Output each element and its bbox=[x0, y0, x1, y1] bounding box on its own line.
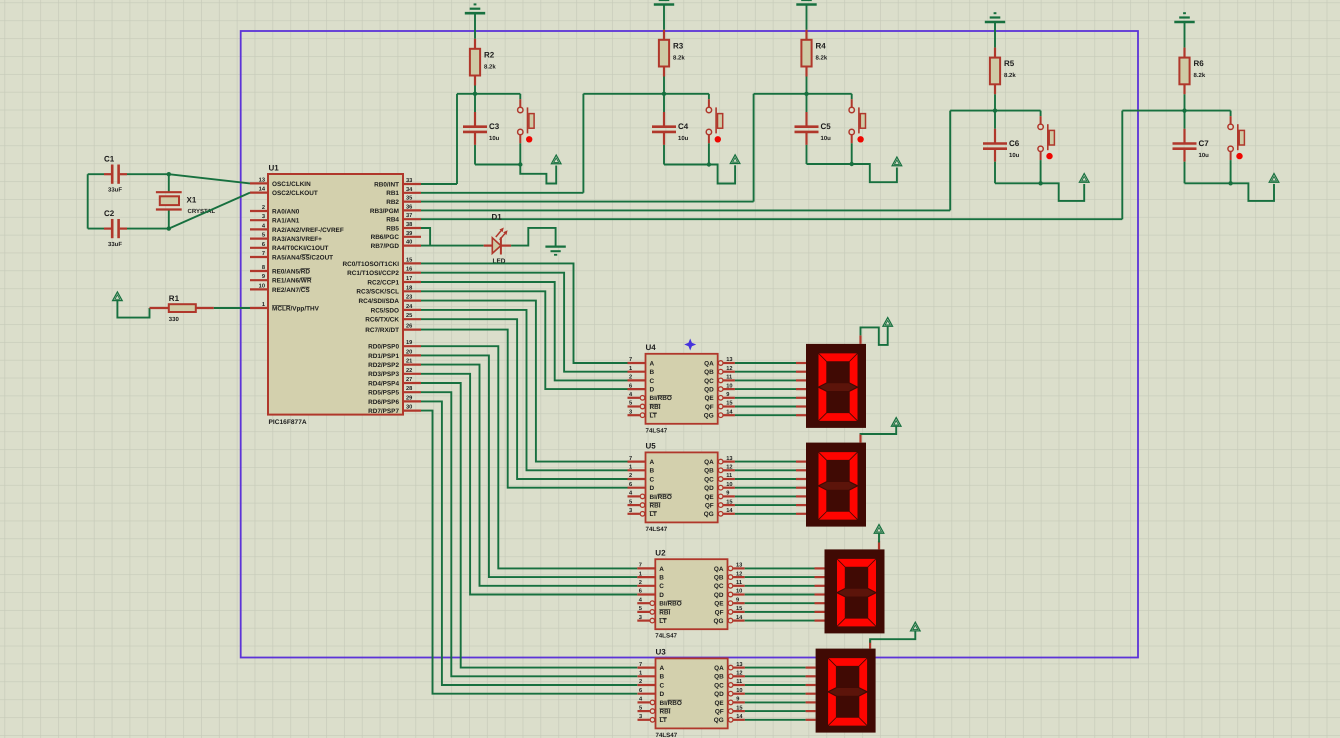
BCD decoder U2 74LS47 bbox=[637, 548, 744, 639]
svg-text:38: 38 bbox=[406, 222, 412, 228]
wire RC4 to decoder bbox=[421, 301, 628, 462]
svg-text:10u: 10u bbox=[678, 135, 689, 142]
microcontroller U1 PIC16F877A bbox=[250, 164, 421, 427]
wire to PIC port row bbox=[421, 94, 754, 202]
capacitor C6 10u bbox=[983, 111, 1020, 184]
svg-text:RC0/T1OSO/T1CKI: RC0/T1OSO/T1CKI bbox=[343, 261, 400, 268]
svg-text:7: 7 bbox=[262, 251, 265, 257]
svg-text:20: 20 bbox=[406, 349, 412, 355]
junction below button 5 bbox=[1228, 181, 1232, 185]
button 3 indicator dot bbox=[857, 136, 863, 142]
svg-text:30: 30 bbox=[406, 405, 412, 411]
wire C2 to node B bbox=[127, 228, 169, 230]
power symbol button 4 bbox=[1079, 174, 1089, 183]
svg-text:18: 18 bbox=[406, 285, 412, 291]
ground above R3 bbox=[654, 0, 674, 5]
svg-text:28: 28 bbox=[406, 386, 412, 392]
wire junction to power arrow 4 bbox=[1041, 183, 1085, 201]
wire display 4 to power bbox=[870, 631, 915, 643]
push button 1 bbox=[518, 94, 535, 165]
resistor R1 330 bbox=[150, 294, 214, 323]
wire RC5 to decoder bbox=[421, 310, 628, 470]
wire RD7 to decoder bbox=[421, 411, 637, 694]
svg-text:X1: X1 bbox=[187, 196, 197, 205]
svg-text:25: 25 bbox=[406, 313, 412, 319]
svg-text:RA0/AN0: RA0/AN0 bbox=[272, 208, 300, 215]
wire display 3 to power bbox=[878, 534, 880, 543]
wire bottom rail C3 bbox=[475, 164, 520, 166]
wire junction to power arrow 2 bbox=[709, 165, 735, 184]
power symbol button 1 bbox=[551, 155, 561, 164]
capacitor C3 10u bbox=[463, 94, 500, 165]
wire RC0 to decoder bbox=[421, 263, 628, 363]
7-segment display 1 bbox=[806, 335, 866, 428]
svg-text:8.2k: 8.2k bbox=[1194, 72, 1206, 79]
wire RD6 to decoder bbox=[421, 401, 637, 685]
7-segment display 3 bbox=[825, 541, 885, 634]
wire ground to R3 bbox=[663, 5, 665, 30]
svg-text:RA2/AN2/VREF-/CVREF: RA2/AN2/VREF-/CVREF bbox=[272, 227, 344, 234]
svg-text:RE1/AN6/WR: RE1/AN6/WR bbox=[272, 278, 312, 285]
svg-text:U4: U4 bbox=[646, 343, 657, 352]
wire RB5 to LED row bbox=[421, 228, 430, 246]
svg-text:RC3/SCK/SCL: RC3/SCK/SCL bbox=[356, 289, 399, 296]
wire ground to R6 bbox=[1184, 22, 1186, 48]
svg-text:R1: R1 bbox=[169, 294, 180, 303]
wire ground to R2 bbox=[474, 13, 476, 39]
svg-text:RD0/PSP0: RD0/PSP0 bbox=[368, 344, 399, 351]
node under R5 bbox=[993, 108, 997, 112]
node under R2 bbox=[473, 92, 477, 96]
wire node rail R4 bbox=[754, 93, 852, 95]
wire ground to R5 bbox=[994, 22, 996, 48]
junction below button 4 bbox=[1038, 181, 1042, 185]
svg-text:RA3/AN3/VREF+: RA3/AN3/VREF+ bbox=[272, 236, 322, 243]
svg-text:33uF: 33uF bbox=[108, 241, 122, 248]
wire node rail R6 bbox=[1122, 110, 1230, 112]
svg-text:RD3/PSP3: RD3/PSP3 bbox=[368, 371, 399, 378]
junction below button 3 bbox=[850, 162, 854, 166]
ground above R2 bbox=[465, 4, 485, 13]
svg-text:37: 37 bbox=[406, 213, 412, 219]
button 4 indicator dot bbox=[1046, 153, 1052, 159]
svg-text:RB3/PGM: RB3/PGM bbox=[370, 208, 399, 215]
svg-text:MCLR/Vpp/THV: MCLR/Vpp/THV bbox=[272, 305, 320, 312]
node under R6 bbox=[1182, 108, 1186, 112]
svg-text:36: 36 bbox=[406, 204, 412, 210]
wire RC2 to decoder bbox=[421, 282, 628, 380]
power symbol display 2 bbox=[891, 418, 901, 427]
wire R4 to node bbox=[806, 77, 808, 94]
wire junction to power arrow 3 bbox=[852, 164, 897, 182]
wires U4 outputs to display 1 bbox=[735, 363, 806, 415]
svg-text:RA4/T0CKI/C1OUT: RA4/T0CKI/C1OUT bbox=[272, 245, 329, 252]
svg-text:33: 33 bbox=[406, 178, 412, 184]
svg-text:8.2k: 8.2k bbox=[1004, 72, 1016, 79]
wire RC6 to decoder bbox=[421, 319, 628, 479]
ground above R6 bbox=[1174, 13, 1194, 22]
svg-text:RD1/PSP1: RD1/PSP1 bbox=[368, 353, 399, 360]
svg-text:33uF: 33uF bbox=[108, 187, 122, 194]
wire node rail R5 bbox=[950, 110, 1040, 112]
svg-text:19: 19 bbox=[406, 340, 412, 346]
svg-text:R5: R5 bbox=[1004, 59, 1015, 68]
svg-text:C3: C3 bbox=[489, 122, 500, 131]
svg-text:U2: U2 bbox=[655, 548, 666, 557]
LED D1 bbox=[484, 213, 511, 265]
wire to PIC port row bbox=[421, 94, 457, 184]
resistor R2 8.2k bbox=[470, 39, 496, 86]
button 2 indicator dot bbox=[715, 136, 721, 142]
resistor R3 8.2k bbox=[659, 30, 685, 77]
wire LED to ground bbox=[511, 228, 555, 246]
svg-text:330: 330 bbox=[169, 316, 180, 323]
wire R1 to MCLR pin 1 bbox=[214, 307, 250, 309]
wires U3 outputs to display 4 bbox=[745, 668, 816, 720]
power symbol display 3 bbox=[874, 525, 884, 534]
wires U5 outputs to display 2 bbox=[735, 462, 806, 514]
wire node rail R2 bbox=[457, 93, 520, 95]
capacitor C7 10u bbox=[1173, 111, 1210, 184]
ground above R5 bbox=[985, 13, 1005, 22]
svg-text:10u: 10u bbox=[1199, 152, 1210, 159]
svg-text:8.2k: 8.2k bbox=[673, 54, 685, 61]
svg-text:35: 35 bbox=[406, 196, 412, 202]
svg-text:40: 40 bbox=[406, 240, 412, 246]
junction below button 2 bbox=[707, 162, 711, 166]
svg-text:RC5/SDO: RC5/SDO bbox=[371, 307, 399, 314]
svg-text:16: 16 bbox=[406, 267, 412, 273]
svg-text:17: 17 bbox=[406, 276, 412, 282]
svg-text:RE0/AN5/RD: RE0/AN5/RD bbox=[272, 268, 310, 275]
wire power to R1 bbox=[117, 301, 149, 318]
svg-text:6: 6 bbox=[262, 242, 265, 248]
wire RD3 to decoder bbox=[421, 374, 637, 595]
svg-text:D1: D1 bbox=[492, 213, 503, 222]
svg-text:RC2/CCP1: RC2/CCP1 bbox=[367, 279, 399, 286]
svg-text:RB0/INT: RB0/INT bbox=[374, 181, 399, 188]
wire RD4 to decoder bbox=[421, 383, 637, 668]
wire to PIC port row bbox=[421, 111, 950, 211]
svg-text:RB1: RB1 bbox=[386, 190, 399, 197]
7-segment display 2 bbox=[806, 434, 866, 526]
wire RD1 to decoder bbox=[421, 355, 637, 577]
wire bottom rail C4 bbox=[664, 164, 709, 166]
wire junction to power arrow 5 bbox=[1231, 183, 1274, 201]
wire node rail R3 bbox=[583, 93, 709, 95]
svg-text:22: 22 bbox=[406, 368, 412, 374]
svg-text:RB7/PGD: RB7/PGD bbox=[371, 243, 400, 250]
wire node B to pin 14 bbox=[169, 193, 250, 229]
svg-text:5: 5 bbox=[262, 233, 265, 239]
svg-text:RC4/SDI/SDA: RC4/SDI/SDA bbox=[359, 298, 400, 305]
svg-text:10u: 10u bbox=[1009, 152, 1020, 159]
wire R2 to node bbox=[474, 86, 476, 94]
svg-text:26: 26 bbox=[406, 324, 412, 330]
resistor R4 8.2k bbox=[801, 30, 827, 77]
capacitor C4 10u bbox=[652, 94, 689, 165]
wire RC3 to decoder bbox=[421, 291, 628, 389]
ground at LED bbox=[545, 247, 565, 255]
wire R3 to node bbox=[663, 77, 665, 94]
svg-text:10: 10 bbox=[259, 283, 265, 289]
wire R5 to node bbox=[994, 94, 996, 110]
wire node A to pin 13 bbox=[169, 174, 250, 183]
wire display 2 to power bbox=[861, 426, 897, 434]
svg-text:OSC1/CLKIN: OSC1/CLKIN bbox=[272, 181, 311, 188]
wire to PIC port row bbox=[421, 111, 1122, 220]
svg-text:2: 2 bbox=[262, 205, 265, 211]
svg-text:RC7/RX/DT: RC7/RX/DT bbox=[365, 327, 399, 334]
resistor R6 8.2k bbox=[1179, 48, 1205, 95]
svg-text:RB2: RB2 bbox=[386, 199, 399, 206]
node under R3 bbox=[662, 92, 666, 96]
wire RC7 to decoder bbox=[421, 330, 628, 488]
svg-text:C7: C7 bbox=[1199, 139, 1210, 148]
node B (OSC2) bbox=[167, 226, 171, 230]
wire display 1 to power bbox=[861, 326, 888, 345]
svg-text:39: 39 bbox=[406, 231, 412, 237]
capacitor C1 33uF bbox=[104, 155, 127, 194]
svg-text:29: 29 bbox=[406, 395, 412, 401]
wire RD2 to decoder bbox=[421, 365, 637, 586]
wire bottom rail C7 bbox=[1185, 182, 1231, 184]
wire C1 left rail bbox=[88, 174, 104, 228]
svg-text:PIC16F877A: PIC16F877A bbox=[269, 419, 307, 426]
svg-text:8.2k: 8.2k bbox=[816, 54, 828, 61]
power symbol display 4 bbox=[911, 622, 921, 631]
svg-text:15: 15 bbox=[406, 257, 412, 263]
svg-text:RA5/AN4/SS/C2OUT: RA5/AN4/SS/C2OUT bbox=[272, 254, 333, 261]
svg-text:U5: U5 bbox=[646, 442, 657, 451]
power symbol button 3 bbox=[892, 157, 902, 166]
svg-text:RD2/PSP2: RD2/PSP2 bbox=[368, 362, 399, 369]
power symbol display 1 bbox=[883, 318, 893, 327]
svg-text:RC1/T1OSI/CCP2: RC1/T1OSI/CCP2 bbox=[347, 270, 399, 277]
push button 3 bbox=[849, 94, 866, 164]
svg-text:RD5/PSP5: RD5/PSP5 bbox=[368, 390, 399, 397]
7-segment display 4 bbox=[816, 640, 876, 733]
power symbol at R1 bbox=[113, 292, 123, 301]
power symbol button 5 bbox=[1269, 174, 1279, 183]
BCD decoder U4 74LS47 bbox=[628, 343, 735, 434]
wire RC1 to decoder bbox=[421, 273, 628, 372]
wire C1 to node A bbox=[127, 173, 169, 175]
svg-text:RD4/PSP4: RD4/PSP4 bbox=[368, 380, 399, 387]
svg-text:RA1/AN1: RA1/AN1 bbox=[272, 218, 300, 225]
wire to PIC port row bbox=[421, 94, 583, 193]
svg-text:23: 23 bbox=[406, 295, 412, 301]
svg-text:U3: U3 bbox=[656, 648, 667, 657]
svg-text:R4: R4 bbox=[816, 41, 827, 50]
svg-text:RC6/TX/CK: RC6/TX/CK bbox=[365, 317, 399, 324]
origin marker bbox=[684, 339, 696, 351]
capacitor C5 10u bbox=[795, 94, 832, 164]
svg-text:27: 27 bbox=[406, 377, 412, 383]
svg-text:1: 1 bbox=[262, 302, 265, 308]
svg-text:10u: 10u bbox=[821, 135, 832, 142]
junction below button 1 bbox=[518, 162, 522, 166]
wire bottom rail C6 bbox=[995, 182, 1041, 184]
svg-text:8: 8 bbox=[262, 265, 265, 271]
svg-text:14: 14 bbox=[259, 187, 266, 193]
svg-text:RB4: RB4 bbox=[386, 217, 399, 224]
push button 2 bbox=[706, 94, 723, 165]
svg-text:C5: C5 bbox=[821, 122, 832, 131]
BCD decoder U5 74LS47 bbox=[628, 442, 735, 533]
svg-text:R3: R3 bbox=[673, 41, 684, 50]
svg-text:OSC2/CLKOUT: OSC2/CLKOUT bbox=[272, 190, 318, 197]
BCD decoder U3 74LS47 bbox=[638, 648, 745, 738]
wire RD0 to decoder bbox=[421, 346, 637, 568]
node under R4 bbox=[804, 92, 808, 96]
svg-text:3: 3 bbox=[262, 214, 265, 220]
node A (OSC1) bbox=[167, 172, 171, 176]
svg-text:C4: C4 bbox=[678, 122, 689, 131]
crystal X1 bbox=[156, 174, 216, 228]
svg-text:C2: C2 bbox=[104, 209, 115, 218]
wire junction to power arrow 1 bbox=[520, 165, 556, 184]
resistor R5 8.2k bbox=[990, 48, 1016, 95]
svg-text:R6: R6 bbox=[1194, 59, 1205, 68]
wire RD5 to decoder bbox=[421, 392, 637, 676]
wire ground to R4 bbox=[806, 5, 808, 30]
capacitor C2 33uF bbox=[104, 209, 127, 248]
svg-text:RD7/PSP7: RD7/PSP7 bbox=[368, 408, 399, 415]
svg-text:8.2k: 8.2k bbox=[484, 63, 496, 70]
svg-text:9: 9 bbox=[262, 274, 265, 280]
svg-text:RB6/PGC: RB6/PGC bbox=[371, 234, 400, 241]
svg-text:R2: R2 bbox=[484, 50, 495, 59]
power symbol button 2 bbox=[730, 155, 740, 164]
svg-text:C1: C1 bbox=[104, 155, 115, 164]
svg-text:13: 13 bbox=[259, 177, 265, 183]
svg-text:RB5: RB5 bbox=[386, 225, 399, 232]
wire RB7 to LED bbox=[421, 245, 484, 247]
svg-text:C6: C6 bbox=[1009, 139, 1020, 148]
button 1 indicator dot bbox=[526, 136, 532, 142]
push button 5 bbox=[1228, 111, 1245, 184]
wire R6 to node bbox=[1184, 94, 1186, 110]
svg-text:RE2/AN7/CS: RE2/AN7/CS bbox=[272, 287, 310, 294]
svg-text:21: 21 bbox=[406, 359, 412, 365]
wire bottom rail C5 bbox=[807, 163, 852, 165]
svg-text:10u: 10u bbox=[489, 135, 500, 142]
push button 4 bbox=[1038, 111, 1055, 184]
svg-text:34: 34 bbox=[406, 187, 413, 193]
svg-text:U1: U1 bbox=[269, 164, 280, 173]
svg-text:24: 24 bbox=[406, 304, 413, 310]
svg-text:RD6/PSP6: RD6/PSP6 bbox=[368, 399, 399, 406]
ground above R4 bbox=[796, 0, 816, 5]
wires U2 outputs to display 3 bbox=[745, 568, 825, 620]
button 5 indicator dot bbox=[1236, 153, 1242, 159]
